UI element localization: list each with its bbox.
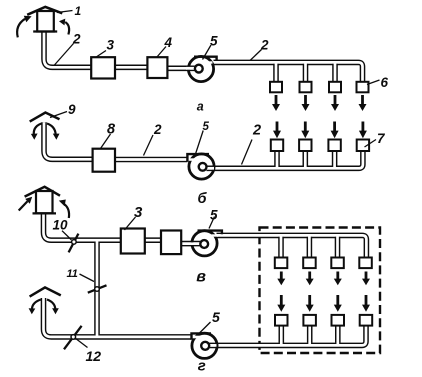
supply arrow 4 (row а) bbox=[359, 95, 367, 111]
wire D1 (stack 12 down-pipe and duct to fan, row г) bbox=[44, 298, 192, 337]
intake square 3 (row г room) bbox=[332, 315, 345, 326]
label 2 (row а left) with leader bbox=[54, 31, 81, 65]
wire C7 (drop stub 2, row в) bbox=[307, 236, 313, 259]
intake square 3 (row б) bbox=[328, 140, 340, 152]
label 5 (row в) with leader bbox=[209, 208, 218, 229]
label а (diagram letter) bbox=[197, 99, 204, 113]
intake arrow 2 (row г room) bbox=[306, 295, 314, 312]
svg-text:8: 8 bbox=[107, 121, 116, 137]
box 3 (row в) bbox=[121, 229, 145, 254]
outlet square 3 (row в room) bbox=[331, 258, 344, 269]
label 1 with leader bbox=[57, 4, 82, 18]
outlet square 1 (row в room) bbox=[275, 258, 288, 269]
outlet square 3 (row а) bbox=[329, 82, 341, 93]
label 3 (row в) with leader bbox=[125, 204, 144, 230]
label 5 (row а) with leader bbox=[203, 34, 219, 60]
damper 12 (slash with pivot on row г duct) bbox=[64, 326, 82, 350]
svg-text:5: 5 bbox=[210, 208, 218, 223]
wire B6 (riser stub 3, row б) bbox=[332, 151, 338, 168]
outlet square 1 (row а) bbox=[270, 82, 282, 93]
wire C1 (deflector 10 down-pipe and duct to box 3, row в) bbox=[44, 213, 122, 240]
label 2 (row б right) with leader bbox=[242, 123, 262, 165]
supply arrow 3 (row в room) bbox=[334, 272, 342, 286]
svg-text:10: 10 bbox=[53, 217, 69, 232]
outlet square 2 (row в room) bbox=[303, 258, 316, 269]
wire A5 (drop stub 1, row а) bbox=[273, 63, 279, 83]
label 2 (row б middle) with leader bbox=[144, 122, 163, 156]
label 2 (row а right) with leader bbox=[250, 38, 269, 61]
label 11 with leader bbox=[67, 268, 95, 282]
wire A3 (box 4 to fan inlet, row а) bbox=[167, 66, 200, 72]
exhaust stack 12 cap and arrows (row г) bbox=[29, 287, 61, 314]
intake square 1 (row г room) bbox=[275, 315, 288, 326]
supply arrow 2 (row в room) bbox=[306, 272, 314, 286]
deflector 10 (roof ventilator, row в) bbox=[19, 187, 69, 218]
box 8 (row б) bbox=[93, 149, 115, 172]
outlet square 4 (row в room) bbox=[359, 258, 372, 269]
outlet square 2 (row а) bbox=[300, 82, 312, 93]
wire A6 (drop stub 2, row а) bbox=[303, 63, 309, 83]
label 10 with leader bbox=[53, 217, 72, 240]
label 8 with leader bbox=[101, 121, 117, 148]
intake arrow 1 (row г room) bbox=[277, 295, 285, 312]
supply arrow 2 (row а) bbox=[302, 95, 310, 111]
intake square 2 (row б) bbox=[299, 140, 311, 152]
svg-text:11: 11 bbox=[67, 268, 78, 280]
svg-text:9: 9 bbox=[68, 102, 76, 117]
wire A2 (box 3 to box 4, row а) bbox=[115, 65, 149, 71]
wire A1 (deflector 1 down-pipe and duct to box 3, row а) bbox=[44, 31, 92, 68]
fan 5 (row а, centrifugal fan) bbox=[186, 56, 217, 81]
wire A7 (drop stub 3, row а) bbox=[332, 63, 338, 83]
damper 11 (slash with pivot on vertical duct) bbox=[88, 285, 107, 292]
intake arrow 1 (row б) bbox=[273, 122, 281, 139]
label 7 with leader bbox=[365, 131, 387, 147]
supply arrow 1 (row в room) bbox=[277, 272, 285, 286]
fan 5 (row б, centrifugal fan, mirrored) bbox=[187, 154, 214, 179]
svg-text:г: г bbox=[198, 358, 206, 375]
supply arrow 4 (row в room) bbox=[362, 272, 370, 286]
wire C3 (second box to fan inlet, row в) bbox=[181, 241, 204, 247]
wire C6 (drop stub 1, row в) bbox=[278, 236, 284, 259]
intake arrow 2 (row б) bbox=[301, 122, 309, 139]
label 5 (row б) with leader bbox=[195, 121, 210, 157]
damper 10 (slash with pivot on row в duct) bbox=[69, 234, 79, 253]
svg-text:2: 2 bbox=[153, 122, 162, 137]
room (dashed enclosure for diagrams в and г) bbox=[260, 228, 381, 354]
label г (diagram letter) bbox=[198, 358, 206, 375]
wire D5 (riser stub 3, row г) bbox=[335, 325, 341, 345]
wire D3 (riser stub 1, row г) bbox=[278, 325, 284, 345]
intake arrow 3 (row б) bbox=[331, 122, 339, 139]
svg-text:3: 3 bbox=[107, 37, 115, 52]
wire C4 (fan outlet duct into room with end elbow, row в) bbox=[217, 235, 367, 258]
wire B4 (riser stub 1, row б) bbox=[274, 151, 280, 168]
intake square 4 (row г room) bbox=[360, 315, 373, 326]
svg-text:а: а bbox=[197, 99, 204, 113]
wire C2 (box 3 to second box, row в) bbox=[145, 237, 162, 243]
intake arrow 3 (row г room) bbox=[334, 295, 342, 312]
fan 5 (row в, centrifugal fan) bbox=[190, 231, 222, 256]
svg-text:12: 12 bbox=[86, 348, 102, 364]
svg-text:б: б bbox=[198, 191, 208, 207]
intake square 4 (row б) bbox=[357, 140, 369, 152]
label б (diagram letter) bbox=[198, 191, 208, 207]
label 3 (row а) with leader bbox=[96, 37, 115, 57]
wire B3 (fan to intakes duct with end elbow, row б) bbox=[207, 150, 363, 168]
wire C5 (vertical connecting duct 11 between rows в and г) bbox=[94, 240, 100, 337]
svg-text:3: 3 bbox=[134, 204, 143, 221]
wire D2 (fan to room intakes bottom duct, row г) bbox=[207, 325, 366, 345]
svg-text:в: в bbox=[196, 269, 206, 286]
wire B5 (riser stub 2, row б) bbox=[302, 151, 308, 168]
intake arrow 4 (row г room) bbox=[362, 295, 370, 312]
supply arrow 1 (row а) bbox=[272, 95, 280, 111]
intake square 1 (row б) bbox=[271, 140, 283, 152]
outlet square 4 (row а) bbox=[357, 82, 369, 93]
wire B1 (stack 9 down-pipe and duct to box 8, row б) bbox=[44, 122, 93, 159]
intake arrow 4 (row б) bbox=[359, 122, 367, 139]
label 5 (row г) with leader bbox=[199, 309, 221, 334]
label 6 with leader bbox=[367, 75, 389, 90]
svg-text:5: 5 bbox=[212, 309, 220, 325]
exhaust stack 9 cap and arrows (row б) bbox=[30, 113, 60, 140]
label 9 with leader bbox=[50, 102, 76, 117]
svg-text:6: 6 bbox=[381, 75, 389, 90]
deflector 1 (roof ventilator, row а) bbox=[17, 7, 69, 38]
wire A4 (fan outlet duct with end elbow, row а) bbox=[214, 62, 363, 82]
wire D4 (riser stub 2, row г) bbox=[307, 325, 313, 345]
wire B2 (box 8 to fan, row б) bbox=[115, 157, 188, 163]
label в (diagram letter) bbox=[196, 269, 206, 286]
box 4 (row а) bbox=[147, 57, 167, 78]
label 12 with leader bbox=[75, 338, 101, 364]
box 3 (row а) bbox=[91, 57, 115, 78]
intake square 2 (row г room) bbox=[303, 315, 316, 326]
svg-text:5: 5 bbox=[210, 34, 218, 49]
svg-text:2: 2 bbox=[252, 123, 261, 139]
label 4 (row а) with leader bbox=[157, 35, 173, 58]
wire C8 (drop stub 3, row в) bbox=[335, 236, 341, 259]
box unlabeled (row в) bbox=[161, 231, 181, 255]
supply arrow 3 (row а) bbox=[331, 95, 339, 111]
fan 5 (row г, centrifugal fan, mirrored) bbox=[192, 333, 218, 358]
svg-text:1: 1 bbox=[75, 4, 82, 18]
